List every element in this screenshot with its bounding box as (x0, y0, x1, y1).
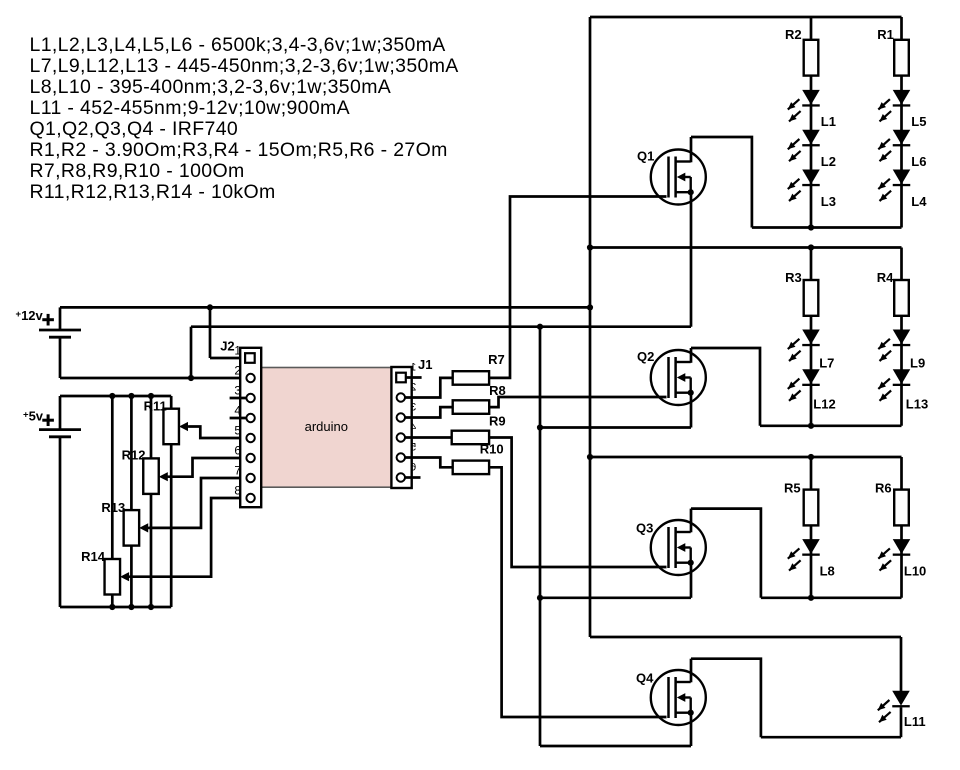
svg-text:L8,L10 - 395-400nm;3,2-3,6v;1w: L8,L10 - 395-400nm;3,2-3,6v;1w;350mA (30, 76, 392, 98)
wire (540, 745, 691, 748)
wire (111, 396, 114, 559)
wire (810, 248, 813, 426)
svg-text:Q1,Q2,Q3,Q4 - IRF740: Q1,Q2,Q3,Q4 - IRF740 (30, 118, 239, 140)
wire (59, 307, 62, 330)
svg-text:4: 4 (410, 422, 416, 434)
wire (189, 427, 246, 439)
resistor R3 (785, 270, 818, 316)
wire (690, 659, 693, 683)
wire (406, 476, 421, 479)
wire (590, 456, 902, 459)
wire (810, 457, 813, 598)
wire (130, 546, 133, 607)
LED L12 (788, 370, 836, 412)
svg-text:1: 1 (234, 344, 241, 358)
wire (170, 396, 173, 409)
svg-text:L11 - 452-455nm;9-12v;10w;900m: L11 - 452-455nm;9-12v;10w;900mA (30, 97, 351, 119)
svg-text:L1,L2,L3,L4,L5,L6 - 6500k;3,4-: L1,L2,L3,L4,L5,L6 - 6500k;3,4-3,6v;1w;35… (30, 34, 446, 56)
wire (590, 636, 901, 639)
svg-text:6: 6 (234, 444, 241, 458)
svg-text:R1: R1 (877, 27, 894, 42)
wire (691, 348, 760, 426)
svg-text:Q1: Q1 (637, 149, 654, 164)
svg-text:Q3: Q3 (636, 521, 653, 536)
node block3 R5 junction (808, 454, 814, 460)
connector J2 (220, 339, 261, 508)
wire (690, 393, 693, 428)
wire (690, 348, 693, 363)
node 0v rail junctions (109, 604, 115, 610)
wire (406, 436, 452, 439)
legend text block (30, 34, 459, 203)
wire (60, 606, 171, 609)
wire (690, 137, 693, 162)
resistor R7 (453, 352, 505, 385)
svg-text:L11: L11 (904, 714, 926, 729)
wire (690, 192, 693, 327)
svg-text:arduino: arduino (305, 419, 348, 434)
LED L11 (878, 691, 926, 729)
svg-text:R10: R10 (480, 441, 504, 456)
LED L13 (878, 370, 928, 412)
wire (190, 327, 193, 378)
node rail/block2 junction (587, 244, 593, 250)
svg-text:Q2: Q2 (637, 349, 654, 364)
LED L9 (878, 330, 925, 371)
svg-text:L7: L7 (819, 356, 834, 371)
wire (761, 596, 902, 599)
wire (230, 417, 246, 420)
svg-text:J2: J2 (220, 339, 234, 354)
svg-text:L2: L2 (821, 154, 836, 169)
wire (540, 596, 691, 599)
svg-text:R6: R6 (875, 481, 892, 496)
resistor R2 (785, 27, 818, 76)
node block3 bottom junction (808, 595, 814, 601)
wire (760, 424, 902, 427)
wire (406, 376, 422, 379)
svg-text:L3: L3 (821, 194, 836, 209)
svg-text:3: 3 (234, 384, 241, 398)
node rail/block3 junction (587, 454, 593, 460)
svg-text:R12: R12 (122, 448, 146, 463)
svg-text:4: 4 (234, 404, 241, 418)
svg-text:2: 2 (234, 364, 241, 378)
wire (230, 397, 246, 400)
wire (150, 495, 153, 607)
svg-text:1: 1 (410, 362, 416, 374)
svg-text:R5: R5 (784, 481, 801, 496)
svg-text:8: 8 (234, 484, 241, 498)
wire (690, 713, 693, 746)
resistor R8 (453, 383, 506, 414)
wire (691, 659, 761, 738)
wire (149, 478, 246, 528)
svg-text:Q4: Q4 (636, 671, 654, 686)
svg-text:J1: J1 (418, 357, 432, 372)
wire (539, 327, 542, 746)
resistor R9 (452, 413, 506, 444)
node block2 bottom junction (808, 423, 814, 429)
svg-text:L1: L1 (821, 114, 836, 129)
wire (690, 563, 693, 598)
LED L2 (788, 130, 836, 169)
resistor R5 (784, 481, 818, 526)
LED L1 (788, 90, 836, 129)
wire (406, 378, 453, 398)
svg-text:R4: R4 (877, 270, 894, 285)
svg-text:R13: R13 (101, 500, 125, 515)
LED L6 (878, 130, 926, 169)
potentiometer R12 (122, 448, 169, 494)
wire (170, 444, 173, 607)
node +12v junction (207, 304, 213, 310)
svg-text:L10: L10 (904, 564, 926, 579)
wire (191, 325, 691, 328)
svg-text:3: 3 (410, 402, 416, 414)
wire (168, 458, 246, 477)
wire (810, 17, 813, 228)
svg-text:7: 7 (234, 464, 241, 478)
wire (130, 396, 133, 510)
wire (406, 407, 453, 417)
LED L5 (878, 90, 926, 129)
wire (210, 357, 245, 360)
wire (60, 395, 171, 398)
svg-text:L12: L12 (813, 396, 835, 411)
wire (900, 707, 903, 737)
node -12v branch junction (188, 375, 194, 381)
svg-text:6: 6 (410, 462, 416, 474)
svg-text:R7,R8,R9,R10 - 100Om: R7,R8,R9,R10 - 100Om (30, 160, 245, 182)
transistor Q3 (636, 520, 706, 575)
wire (489, 197, 666, 378)
transistor Q2 (637, 349, 706, 405)
svg-text:R3: R3 (785, 270, 802, 285)
node +5v rail junctions (109, 393, 115, 399)
wire (691, 509, 761, 598)
arduino module (261, 368, 391, 488)
node +12v/rail junction (587, 304, 593, 310)
LED L4 (878, 170, 927, 209)
potentiometer R11 (144, 398, 189, 444)
wire (59, 437, 62, 607)
wire (690, 509, 693, 533)
wire (489, 467, 666, 717)
wire (900, 248, 903, 426)
svg-text:R1,R2 - 3.90Om;R3,R4 - 15Om;R5: R1,R2 - 3.90Om;R3,R4 - 15Om;R5,R6 - 27Om (30, 139, 448, 161)
node ground bus top junction (537, 324, 543, 330)
LED L10 (878, 540, 926, 579)
wire (60, 377, 246, 380)
svg-text:R9: R9 (489, 413, 506, 428)
resistor R10 (453, 441, 504, 474)
node bus/Q3 return junction (537, 595, 543, 601)
wire (150, 396, 153, 458)
svg-text:R14: R14 (81, 549, 106, 564)
svg-text:2: 2 (410, 382, 416, 394)
svg-text:L8: L8 (820, 564, 835, 579)
potentiometer R14 (81, 549, 130, 595)
svg-text:L6: L6 (911, 154, 926, 169)
svg-text:R7: R7 (488, 352, 505, 367)
wire (761, 736, 901, 739)
svg-text:5: 5 (234, 424, 241, 438)
battery +5v (23, 409, 81, 437)
svg-text:R11,R12,R13,R14 - 10kOm: R11,R12,R13,R14 - 10kOm (30, 181, 276, 203)
wire (900, 17, 903, 228)
wire (489, 397, 666, 407)
LED L7 (788, 330, 835, 371)
wire (130, 498, 246, 577)
wire (406, 458, 453, 468)
svg-text:L5: L5 (911, 114, 926, 129)
node block1 bottom junction (808, 224, 814, 230)
wire (209, 307, 212, 358)
LED L3 (788, 170, 836, 209)
node block2 R3 junction (808, 244, 814, 250)
wire (489, 438, 666, 568)
svg-text:L13: L13 (906, 396, 928, 411)
wire (752, 226, 902, 229)
wire (691, 137, 752, 228)
svg-text:L9: L9 (910, 356, 925, 371)
svg-text:R2: R2 (785, 27, 802, 42)
svg-text:L4: L4 (911, 194, 927, 209)
svg-text:R11: R11 (144, 398, 167, 413)
svg-text:5: 5 (410, 442, 416, 454)
transistor Q4 (636, 670, 706, 725)
resistor R4 (877, 270, 909, 316)
battery +12v (16, 308, 82, 337)
wire (590, 246, 902, 249)
wire (59, 396, 62, 430)
wire (590, 16, 902, 19)
wire (60, 306, 590, 309)
wire (111, 595, 114, 608)
wire (59, 337, 62, 378)
resistor R1 (877, 27, 909, 76)
wire (900, 457, 903, 598)
wire (900, 637, 903, 691)
wire (589, 17, 592, 637)
LED L8 (788, 540, 835, 579)
transistor Q1 (637, 149, 706, 205)
node bus/Q2 return junction (537, 424, 543, 430)
connector J1 (391, 357, 432, 488)
resistor R6 (875, 481, 909, 526)
potentiometer R13 (101, 500, 149, 546)
svg-text:L7,L9,L12,L13 - 445-450nm;3,2-: L7,L9,L12,L13 - 445-450nm;3,2-3,6v;1w;35… (30, 55, 459, 77)
wire (540, 426, 691, 429)
